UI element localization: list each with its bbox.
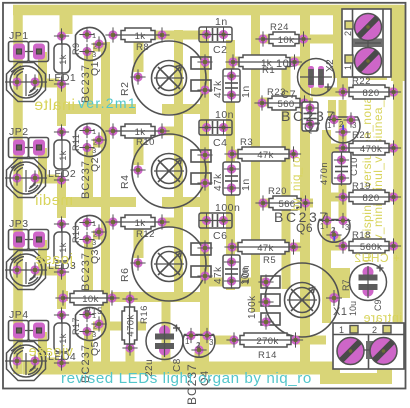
svg-text:10k: 10k	[82, 294, 99, 305]
resistor R5 47k	[224, 239, 239, 254]
svg-text:270k: 270k	[256, 336, 278, 347]
svg-text:47k: 47k	[213, 80, 224, 98]
svg-text:10n: 10n	[240, 267, 251, 285]
blue tick Q6	[333, 236, 335, 241]
connector JP1	[9, 42, 49, 62]
svg-text:R9: R9	[71, 42, 81, 55]
capacitor C9 10u	[350, 264, 387, 301]
svg-text:1k: 1k	[135, 218, 146, 229]
svg-text:Q2: Q2	[89, 157, 101, 172]
wire K1 wiper row	[208, 278, 266, 287]
svg-text:1: 1	[92, 219, 96, 228]
transistor Q4 BC237	[183, 335, 215, 358]
svg-text:joase: joase	[35, 251, 74, 268]
wire Q collector stub ch4	[93, 322, 146, 331]
connector JP4	[9, 321, 49, 341]
svg-text:2: 2	[343, 30, 353, 36]
svg-text:3: 3	[92, 50, 96, 59]
svg-text:820: 820	[362, 193, 379, 204]
svg-text:1k: 1k	[135, 31, 146, 42]
svg-text:C6: C6	[213, 230, 227, 242]
svg-text:1: 1	[92, 31, 96, 40]
wire Q emitter drop ch1	[84, 52, 93, 109]
wire R16 bottom drop	[126, 348, 135, 368]
capacitor C10 470n	[332, 152, 351, 184]
wire R18 row	[329, 242, 346, 251]
svg-text:R19: R19	[352, 181, 371, 192]
wire trimpot R2 wiper feed	[134, 32, 144, 72]
wire X1 bottom right drop	[377, 366, 392, 378]
svg-text:3: 3	[209, 338, 214, 347]
capacitor C7	[302, 102, 318, 131]
svg-text:47k: 47k	[257, 243, 274, 254]
svg-text:470n: 470n	[319, 162, 330, 185]
svg-text:C7: C7	[281, 89, 296, 101]
wire top supply rail	[13, 5, 403, 16]
wire Q collector stub ch1	[93, 43, 110, 52]
svg-text:medii: medii	[35, 192, 73, 209]
svg-text:R24: R24	[270, 22, 289, 33]
wire channel 2 bottom bus right	[162, 197, 209, 207]
speaker/cap footprint ch3	[5, 251, 47, 290]
wire channel 1 bottom bus left	[57, 104, 136, 114]
svg-text:JP2: JP2	[9, 126, 29, 138]
resistor R23 560	[254, 95, 269, 110]
wire V x255	[251, 5, 260, 312]
resistor R12 1k	[105, 214, 120, 229]
svg-text:1k: 1k	[58, 54, 68, 64]
svg-text:inalte: inalte	[34, 97, 75, 114]
wire V x230	[226, 40, 235, 290]
svg-text:3: 3	[345, 223, 350, 232]
trimpot R6 47k	[132, 227, 211, 301]
wire R10 link	[162, 127, 183, 136]
blue tick Q7	[342, 125, 344, 130]
wire Q emitter drop ch4	[84, 332, 93, 366]
capacitor 10u electrolytic	[298, 59, 335, 96]
wire X2 pin1 stub	[366, 70, 387, 80]
resistor R22 820	[335, 84, 350, 99]
svg-text:R13: R13	[71, 225, 81, 243]
resistor R15 10k	[55, 290, 70, 305]
wire C9 area blob	[324, 268, 350, 298]
resistor R14 270k	[226, 332, 241, 347]
trimpot R4 47k	[132, 134, 211, 208]
wire speaker link ch4	[35, 358, 59, 367]
wire Q6 pad link	[332, 235, 341, 250]
svg-text:JP1: JP1	[9, 30, 29, 42]
via near X1	[326, 290, 342, 306]
capacitor 1n vertical	[223, 162, 240, 195]
transistor Q6 BC237	[318, 220, 350, 243]
transistor Q5 BC237	[76, 308, 106, 341]
svg-text:X2: X2	[325, 59, 336, 72]
wire LED4 cathode drop	[57, 363, 66, 368]
wire JP2 to speaker stub	[38, 148, 47, 178]
wire JP3 to speaker stub	[38, 240, 47, 270]
wire channel 3 bottom bus right	[111, 292, 209, 302]
wire R20 right link	[299, 199, 313, 208]
svg-text:LED1: LED1	[48, 72, 76, 84]
wire X2 right side	[391, 5, 405, 81]
resistor R21 470k	[335, 140, 350, 155]
svg-text:intrare: intrare	[363, 311, 402, 325]
capacitor C6 100n	[199, 213, 232, 228]
svg-text:3: 3	[92, 238, 96, 247]
diode LED2	[54, 124, 69, 139]
wire Q7 pad1 feed	[328, 100, 336, 117]
svg-text:10n: 10n	[215, 109, 234, 121]
svg-text:1n: 1n	[240, 85, 252, 98]
wire R12 link	[162, 218, 183, 227]
svg-text:1k: 1k	[58, 333, 68, 343]
svg-text:R11: R11	[71, 134, 81, 151]
svg-text:R20: R20	[268, 186, 287, 197]
svg-text:R3: R3	[240, 137, 253, 148]
wire LED3 cathode drop	[57, 272, 66, 296]
wire R19 row	[329, 193, 346, 202]
svg-text:rev_minispinul_versiunea_x: rev_minispinul_versiunea_x	[371, 94, 385, 252]
svg-text:R18: R18	[352, 230, 371, 241]
wire R8 to C2 link	[146, 31, 204, 40]
resistor R24 10k	[255, 31, 270, 46]
svg-text:R21: R21	[352, 130, 371, 141]
wire LED3 anode feed	[57, 202, 66, 218]
capacitor C4 10n	[199, 120, 232, 135]
wire left ground rail	[13, 5, 23, 374]
svg-text:R4: R4	[119, 175, 131, 189]
wire channel 1 bottom bus right	[162, 104, 209, 114]
svg-text:10u: 10u	[348, 301, 358, 316]
wire Q emitter drop ch3	[84, 240, 93, 296]
svg-text:47k: 47k	[213, 266, 224, 284]
svg-text:ver.2m1: ver.2m1	[78, 95, 137, 111]
wire LED2 anode feed	[57, 109, 66, 126]
svg-text:JP3: JP3	[9, 218, 29, 230]
capacitor C8 22u	[146, 323, 183, 360]
wire LED1 cathode drop	[57, 84, 66, 109]
wire bottom bus to X1	[23, 362, 340, 375]
svg-text:vjoase: vjoase	[28, 344, 73, 360]
diode LED3	[54, 216, 69, 231]
wire R5 left stub	[228, 243, 240, 252]
resistor R8 1k	[105, 27, 120, 42]
svg-text:C9: C9	[373, 299, 383, 311]
capacitor 10n vertical	[223, 255, 240, 288]
wire LED4 anode feed	[57, 296, 66, 309]
speaker/cap footprint ch1	[5, 63, 47, 102]
svg-text:R15: R15	[84, 306, 103, 317]
svg-text:1: 1	[339, 325, 345, 335]
svg-text:1n: 1n	[215, 16, 228, 28]
wire V x287	[282, 61, 291, 289]
svg-text:Q1: Q1	[89, 61, 101, 76]
svg-text:47k: 47k	[257, 150, 274, 161]
trimpot R2 47k	[132, 41, 211, 115]
svg-text:revised LEDs light organ by ni: revised LEDs light organ by niq_ro	[61, 370, 312, 387]
svg-text:2: 2	[196, 341, 201, 350]
svg-text:C4: C4	[213, 137, 227, 149]
svg-text:Q7: Q7	[304, 120, 321, 134]
resistor R18 560k	[335, 238, 350, 253]
resistor R19 820	[335, 189, 350, 204]
svg-text:3: 3	[352, 121, 357, 130]
svg-text:2: 2	[331, 226, 336, 235]
svg-text:R14: R14	[258, 350, 277, 361]
svg-text:Q5: Q5	[89, 341, 101, 356]
svg-text:10u: 10u	[276, 58, 296, 70]
wire LED1 anode feed	[60, 10, 73, 34]
wire R14 left link	[214, 336, 234, 345]
wire strip under X1	[320, 373, 392, 384]
resistor R16 10k vertical	[122, 291, 137, 306]
wire Q collector stub ch3	[93, 231, 110, 240]
svg-text:C2: C2	[213, 44, 227, 56]
trimpot R7 100k master	[261, 263, 339, 337]
wire R24 right link	[299, 35, 344, 44]
wire R1 left stub	[228, 57, 240, 66]
wire R3 right link	[276, 150, 291, 159]
wire V x204	[200, 30, 209, 366]
wire Q4 drop	[195, 352, 204, 366]
svg-text:Q6: Q6	[296, 221, 313, 235]
resistor R3 47k	[224, 146, 239, 161]
wire trimpot R6 wiper feed	[134, 219, 144, 258]
connector JP3	[9, 230, 49, 250]
diode LED4	[54, 307, 69, 322]
svg-text:100k: 100k	[247, 295, 258, 319]
capacitor 1n vertical	[223, 69, 240, 102]
wire trimpot R4 wiper feed	[134, 128, 144, 165]
svg-text:47k: 47k	[213, 173, 224, 191]
terminal block X1	[333, 323, 404, 369]
svg-text:R16: R16	[139, 305, 150, 324]
wire V x166 through C8	[162, 297, 171, 366]
transistor Q3 BC237	[76, 216, 106, 249]
resistor R1 1k	[225, 54, 240, 69]
svg-text:1: 1	[185, 337, 190, 346]
wire JP1 to speaker stub	[38, 52, 47, 82]
svg-text:470k: 470k	[126, 314, 137, 336]
wire X2 left side	[333, 5, 342, 78]
wire JP4 to speaker stub	[38, 332, 47, 362]
svg-text:100n: 100n	[215, 202, 240, 214]
connector JP2	[9, 138, 49, 158]
svg-text:1: 1	[92, 127, 96, 136]
svg-text:C10: C10	[349, 157, 360, 176]
svg-text:1n: 1n	[240, 178, 252, 191]
wire X2 to R22 link	[337, 64, 348, 92]
wire V x178	[174, 30, 183, 300]
svg-text:R6: R6	[119, 268, 131, 282]
wire Q emitter drop ch2	[84, 148, 93, 202]
transistor Q2 BC237	[76, 123, 106, 156]
wire speaker link ch2	[35, 175, 59, 184]
wire V x326	[322, 130, 331, 323]
svg-text:R1: R1	[262, 65, 275, 76]
terminal block X2	[342, 9, 391, 77]
wire R3 left stub	[228, 150, 240, 159]
svg-text:R2: R2	[119, 82, 131, 96]
svg-text:JP4: JP4	[9, 309, 29, 321]
svg-text:1k: 1k	[58, 150, 68, 160]
wire R23 right link	[299, 98, 313, 107]
wire R24 left stub	[254, 35, 270, 44]
wire R1 right link	[291, 57, 307, 66]
svg-text:Q3: Q3	[89, 249, 101, 264]
wire speaker link ch3	[35, 267, 59, 276]
wire mid column V x105	[101, 42, 110, 368]
svg-text:470k: 470k	[360, 144, 382, 155]
resistor R10 1k	[105, 123, 120, 138]
wire LED2 cathode drop	[57, 180, 66, 202]
speaker/cap footprint ch2	[5, 159, 47, 198]
wire V x342 Q7-Q6 link	[339, 100, 347, 221]
wire R5 right link	[291, 243, 305, 252]
svg-text:R17: R17	[71, 317, 81, 335]
svg-text:3: 3	[92, 146, 96, 155]
wire right supply rail	[393, 5, 403, 342]
svg-text:2: 2	[372, 325, 378, 335]
svg-text:10k: 10k	[278, 35, 295, 46]
transistor Q1 BC237	[76, 28, 106, 61]
transistor Q7 BC237	[326, 117, 360, 143]
wire R15 row ch4	[111, 292, 178, 302]
svg-text:by_niq_ro: by_niq_ro	[291, 156, 303, 211]
svg-text:R5: R5	[263, 255, 276, 266]
wire V x305	[300, 14, 310, 366]
svg-text:820: 820	[362, 88, 379, 99]
speaker/cap footprint ch4	[5, 342, 47, 381]
diode LED1	[54, 28, 69, 43]
wire R21 row	[329, 144, 346, 153]
svg-text:X1: X1	[333, 306, 347, 318]
wire speaker link ch1	[35, 79, 59, 88]
capacitor C2 1n	[199, 27, 232, 42]
svg-text:3: 3	[92, 330, 96, 339]
resistor R20 560	[255, 195, 270, 210]
wire R20 left stub	[253, 199, 270, 208]
wire R22 row	[311, 88, 346, 97]
wire R14 right link	[295, 336, 326, 345]
svg-text:+ CHU2: + CHU2	[354, 251, 400, 265]
wire channel 3 bottom bus left	[57, 291, 68, 301]
wire Q collector stub ch2	[93, 139, 110, 148]
svg-text:1: 1	[343, 64, 353, 70]
wire R23 left stub	[253, 98, 269, 107]
svg-text:LED2: LED2	[48, 168, 76, 180]
wire channel 2 bottom bus left	[57, 197, 136, 207]
